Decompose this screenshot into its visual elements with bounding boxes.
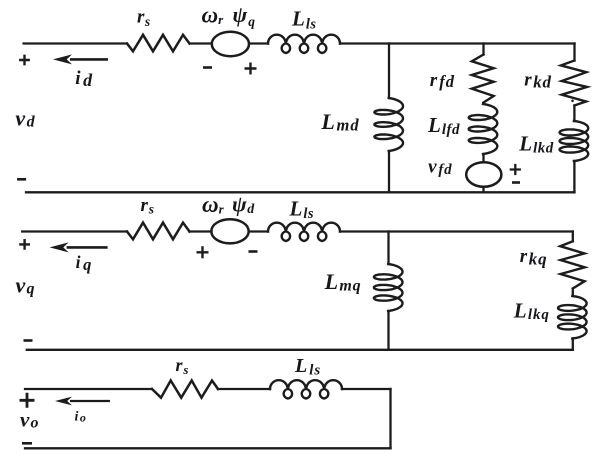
resistor r_fd (472, 55, 494, 103)
terminal minus (d-axis) (17, 178, 26, 181)
wire: rkq to Llkq (572, 289, 574, 297)
svg-text:id: id (75, 68, 93, 90)
wire: d-axis top-left segment (24, 42, 127, 44)
wire: rs to source (q-axis) (190, 230, 212, 232)
resistor R_s (0-axis) (152, 381, 218, 398)
inductor L_ls (0-axis) (270, 380, 342, 398)
terminal plus (q-axis) (19, 239, 30, 250)
inductor L_ls (d-axis) (268, 35, 340, 53)
resistor r_kq (560, 241, 585, 288)
wire: damper-q branch corner (572, 232, 574, 242)
junction dot artifact (571, 100, 574, 103)
wire: vfd stub upper (482, 154, 484, 162)
svg-text:Llkq: Llkq (513, 298, 550, 323)
svg-text:io: io (75, 410, 86, 425)
wire: q-axis bottom (27, 349, 573, 351)
inductor L_lkq (558, 296, 587, 339)
inductor L_ls (q-axis) (268, 223, 340, 241)
polarity plus of source (d-axis) (245, 63, 257, 75)
inductor L_md (374, 98, 403, 151)
wire: rs to source (d-axis) (190, 42, 212, 44)
svg-text:rfd: rfd (430, 70, 455, 91)
polarity minus of v_fd (512, 181, 520, 184)
wire: source to Lls (d-axis) (249, 42, 268, 44)
svg-text:ψd: ψd (232, 191, 255, 217)
svg-text:vfd: vfd (428, 157, 452, 179)
svg-text:ψq: ψq (233, 2, 256, 29)
svg-text:rkd: rkd (524, 70, 552, 92)
svg-text:rs: rs (137, 7, 150, 29)
svg-text:Llkd: Llkd (518, 131, 554, 156)
wire: damper-d branch corner (573, 44, 575, 61)
voltage source omega_r psi_q (212, 32, 249, 56)
polarity plus of source (q-axis) (197, 246, 209, 258)
wire: d-axis bottom (26, 191, 575, 193)
svg-text:Lls: Lls (294, 355, 321, 379)
wire: damper-d branch lower (573, 161, 575, 192)
wire: field branch stub (482, 44, 484, 55)
svg-text:Lmd: Lmd (320, 109, 359, 134)
svg-text:rkq: rkq (520, 246, 548, 269)
wire: 0-axis top-left segment (25, 388, 152, 390)
svg-text:Lls: Lls (289, 196, 315, 222)
resistor R_s (q-axis) (127, 223, 190, 240)
wire: vfd stub lower (482, 187, 484, 193)
current arrow i_q (50, 242, 108, 252)
inductor L_mq (374, 264, 403, 311)
svg-text:ωr: ωr (202, 192, 225, 217)
inductor L_lkd (560, 121, 589, 161)
svg-text:rs: rs (141, 195, 154, 217)
wire: rkd to Llkd (573, 106, 575, 122)
polarity minus of source (d-axis) (203, 66, 212, 69)
wire: d-axis top-right segment (340, 42, 575, 44)
wire: q-axis top-right segment (340, 230, 573, 232)
wire: damper-q branch lower (572, 339, 574, 350)
wire: 0-axis top-right segment (342, 388, 391, 390)
svg-text:vd: vd (15, 106, 35, 131)
voltage source omega_r psi_d (211, 219, 248, 243)
wire: L_mq branch lower (387, 311, 389, 350)
inductor L_lfd (469, 104, 498, 154)
wire: L_md branch lower (388, 151, 390, 192)
wire: 0-axis bottom (25, 447, 391, 449)
svg-text:vo: vo (20, 408, 39, 432)
svg-text:ωr: ωr (202, 3, 225, 28)
current arrow i_d (53, 54, 108, 64)
current arrow i_o (55, 397, 110, 406)
resistor r_kd (561, 61, 587, 106)
svg-text:vq: vq (16, 272, 35, 297)
terminal plus (0-axis) (20, 393, 35, 408)
resistor R_s (d-axis) (127, 35, 190, 52)
terminal plus (d-axis) (19, 55, 30, 66)
terminal minus (q-axis) (24, 339, 33, 342)
wire: rs to Lls (0-axis) (218, 388, 270, 390)
svg-text:Lmq: Lmq (324, 269, 362, 295)
voltage source v_fd (466, 162, 501, 187)
svg-text:rs: rs (176, 355, 189, 377)
wire: q-axis top-left segment (22, 230, 127, 232)
wire: L_mq branch upper (387, 232, 389, 265)
terminal minus (0-axis) (22, 442, 32, 445)
wire: 0-axis right side (389, 389, 391, 448)
wire: L_md branch upper (388, 44, 390, 99)
svg-text:iq: iq (76, 252, 92, 274)
svg-text:Llfd: Llfd (427, 113, 460, 138)
svg-text:Lls: Lls (291, 7, 317, 33)
wire: source to Lls (q-axis) (249, 230, 268, 232)
polarity minus of source (q-axis) (249, 250, 258, 253)
polarity plus of v_fd (510, 164, 521, 175)
